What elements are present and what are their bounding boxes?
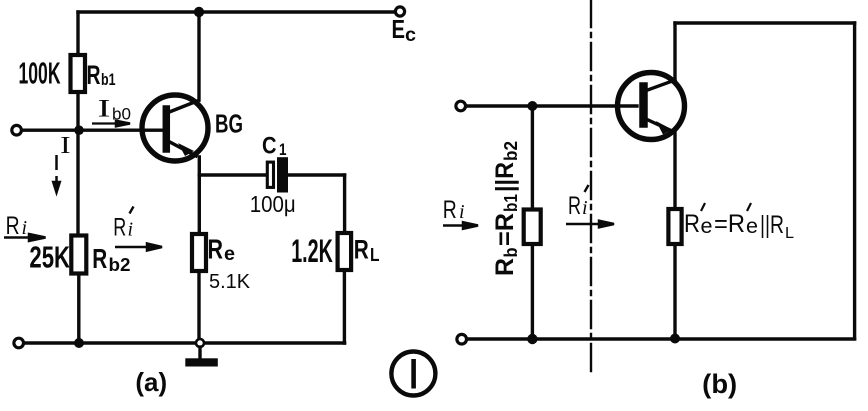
svg-text:e: e	[746, 215, 758, 238]
svg-text:=R: =R	[491, 213, 519, 246]
svg-text:b1: b1	[501, 194, 521, 212]
svg-text:R: R	[684, 210, 700, 238]
svg-text:E: E	[392, 14, 406, 44]
svg-text:R: R	[87, 60, 101, 90]
svg-text:||R: ||R	[760, 211, 784, 239]
svg-text:R: R	[354, 235, 369, 265]
svg-text:b1: b1	[101, 70, 116, 89]
svg-text:R: R	[208, 234, 224, 265]
svg-text:=R: =R	[714, 210, 745, 238]
svg-text:R: R	[491, 258, 519, 276]
svg-text:1.2K: 1.2K	[291, 233, 333, 269]
svg-text:L: L	[785, 225, 794, 242]
svg-text:c: c	[405, 25, 416, 46]
svg-text:1: 1	[279, 140, 287, 159]
svg-text:BG: BG	[215, 109, 243, 139]
svg-text:i: i	[582, 197, 588, 219]
svg-text:b: b	[501, 248, 521, 258]
svg-text:i: i	[459, 201, 465, 223]
svg-text:(a): (a)	[135, 367, 167, 397]
svg-text:C: C	[262, 133, 277, 160]
svg-text:e: e	[701, 215, 713, 238]
svg-text:I: I	[98, 96, 111, 123]
svg-text:b2: b2	[501, 141, 521, 161]
svg-text:R: R	[113, 214, 126, 242]
svg-text:I: I	[60, 133, 70, 159]
svg-text:25K: 25K	[29, 240, 70, 275]
svg-text:R: R	[92, 243, 107, 274]
svg-text:R: R	[6, 212, 20, 240]
svg-text:5.1K: 5.1K	[209, 271, 251, 293]
svg-text:b0: b0	[112, 105, 131, 124]
svg-text:i: i	[128, 219, 134, 241]
svg-text:L: L	[370, 245, 380, 265]
svg-text:(b): (b)	[702, 369, 737, 399]
svg-text:||R: ||R	[491, 162, 519, 192]
svg-text:b2: b2	[109, 255, 131, 275]
svg-text:100K: 100K	[19, 55, 61, 90]
svg-text:R: R	[443, 196, 457, 224]
svg-text:R: R	[568, 192, 581, 220]
svg-text:i: i	[22, 217, 28, 239]
svg-text:100μ: 100μ	[250, 191, 296, 217]
svg-text:e: e	[224, 244, 235, 265]
